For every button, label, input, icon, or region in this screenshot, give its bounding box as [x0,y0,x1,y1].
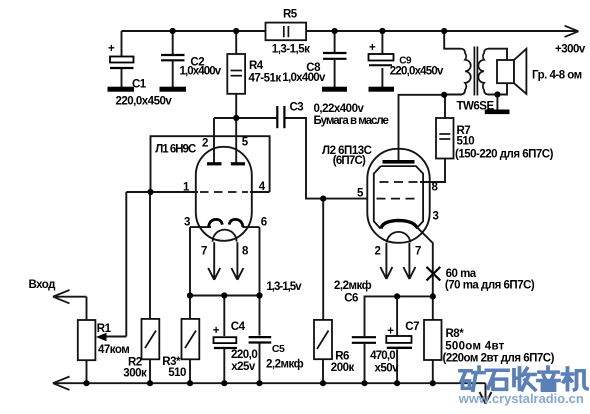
svg-text:2,2мкф: 2,2мкф [266,358,304,370]
wire Л2 grid node to R6 [322,199,324,320]
svg-text:6: 6 [261,216,267,228]
resistor R6 [314,320,332,359]
wire Л1 pin 3 drop [189,227,191,295]
wire input horizontal [55,296,87,298]
resistor R2 [142,319,160,359]
speaker Гр. 4-8 ом [497,49,526,94]
wire secondary bottom to speaker [488,83,507,94]
svg-text:www.crystalradio.cn: www.crystalradio.cn [458,391,584,406]
svg-text:+: + [369,42,376,54]
svg-text:47ком: 47ком [98,344,129,356]
svg-text:(220ом 2вт для 6П7С): (220ом 2вт для 6П7С) [443,353,555,365]
wire R1 wiper riser [125,192,127,337]
resistor R8 [424,320,442,360]
Л2 heater filament [387,232,411,242]
tube Л1 6Н9С envelope [196,147,252,241]
wire R3 bottom lead [189,359,191,383]
svg-text:2,2мкф: 2,2мкф [334,280,372,292]
svg-text:8: 8 [432,182,439,194]
Л1 cathode pin 6 [229,219,243,226]
svg-text:510: 510 [457,136,475,148]
wire ground rail right drop with arrow [480,383,492,403]
svg-text:Гр. 4-8 ом: Гр. 4-8 ом [532,70,582,82]
junction R4 top [233,28,239,34]
junction ground rail R8 [430,380,436,386]
resistor R5 [266,23,307,41]
svg-text:7: 7 [201,245,207,257]
ground C1 [108,87,135,92]
svg-text:2: 2 [375,246,381,258]
svg-text:1: 1 [183,182,190,194]
svg-text:x25v: x25v [231,361,256,373]
wire Л1 cathode pin 3 horizontal [190,226,211,228]
junction ground rail R1 [83,380,89,386]
svg-text:C3: C3 [290,102,304,114]
capacitor C5 [249,337,272,342]
junction transformer primary top [441,28,447,34]
wire C1 bottom lead [121,69,123,87]
wire input arrow [53,290,70,303]
wire R3 top lead [189,296,191,319]
junction secondary ground [494,91,500,97]
svg-text:C5: C5 [272,343,285,355]
wire Л1 heater pin 8 with arrow [231,242,243,279]
wire Л1 cathode rail [190,295,260,297]
svg-text:200к: 200к [331,362,355,374]
transformer TW6SE primary [444,49,471,95]
svg-text:R4: R4 [249,60,264,72]
wire R1 bottom lead [86,360,88,383]
svg-text:C1: C1 [132,79,147,91]
wire transformer primary bottom lead [444,94,462,96]
svg-text:R5: R5 [283,9,298,21]
transformer TW6SE secondary [478,49,488,95]
junction C9 top [379,28,385,34]
svg-text:500ом 4вт: 500ом 4вт [445,340,504,352]
wire R2 riser from grid node [149,192,151,319]
junction node A anode/C3 [233,115,239,121]
wire Л2 heater pin 2 with arrow [380,243,392,279]
svg-text:TW6SE: TW6SE [457,101,495,113]
junction ground rail R6 [320,380,326,386]
svg-text:510: 510 [168,367,186,379]
svg-text:5: 5 [357,188,364,200]
svg-text:47-51к: 47-51к [249,72,282,84]
capacitor C6 [352,337,376,343]
junction C8 top [332,28,338,34]
ground C2 [160,87,187,92]
wire R7 bottom lead to pin 8 [420,159,445,183]
resistor R4 [227,54,245,94]
junction grid Л1 / R2 [147,189,153,195]
wire pin2 anode lead [213,118,215,163]
wire arrow +300v [565,26,579,37]
junction ground rail C5 [256,380,262,386]
watermark 矿石收音机 [460,367,587,390]
svg-text:3: 3 [433,211,439,223]
junction ground rail C7 [394,380,400,386]
wire Л1 cathode pin 6 horizontal [243,226,260,228]
wire R8 bottom lead [432,360,434,383]
svg-text:+: + [108,43,115,55]
svg-text:C7: C7 [405,321,419,333]
wire Л1 pin 6 drop [259,227,261,295]
junction cathode rail C5 [256,292,262,298]
capacitor C2 [161,55,185,60]
svg-text:(70 ma для 6П7С): (70 ma для 6П7С) [445,280,535,292]
wire Л2 heater pin 7 with arrow [403,243,415,279]
Л2 control grid dashes pin 5 [377,198,419,200]
junction cathode rail C4 [221,292,227,298]
wire C6 bottom lead [364,344,366,383]
wire C5 bottom lead [259,343,261,383]
ground speaker [485,110,510,115]
svg-text:220,0x450v: 220,0x450v [390,66,444,78]
wire ground rail left arrow [53,377,70,390]
svg-text:R8*: R8* [446,328,465,340]
wire C7 top lead [396,296,398,336]
wire C4 top lead [223,296,225,337]
wire secondary top to speaker [488,49,507,60]
svg-text:Вход: Вход [29,279,57,291]
wire wiper horizontal [104,336,126,338]
wire R1 top lead [86,297,88,320]
capacitor C1 (electrolytic) [108,43,134,68]
svg-text:(150-220 для 6П7С): (150-220 для 6П7С) [455,149,554,161]
wire Л1 heater pin 7 with arrow [208,242,220,279]
Л1 anode pin 5 [231,162,245,165]
junction cathode rail 2 C7 [394,293,400,299]
tube Л2 6П13С envelope [367,149,429,243]
junction anode Л2 / R7 / primary bottom [441,92,447,98]
Л1 heater filament [213,230,237,242]
svg-text:(6П7С): (6П7С) [333,155,366,167]
capacitor C9 (electrolytic) [369,42,394,65]
svg-text:220,0: 220,0 [231,349,257,361]
junction ground rail C6 [361,380,367,386]
wire C9 bottom lead [381,68,383,87]
wire Л2 cathode rail [365,296,433,336]
Л1 cathode pin 3 [209,219,223,226]
X mark 60 ma [427,267,441,281]
svg-text:2: 2 [202,138,208,150]
wire node A horizontal (anodes to C3) [214,117,277,119]
Л1 grid dashes [200,191,248,193]
svg-text:7: 7 [415,246,421,258]
svg-text:1,0x400v: 1,0x400v [180,65,222,77]
wire C1 top lead [121,31,123,57]
junction ground rail R3 [187,380,193,386]
svg-text:4: 4 [259,181,266,193]
junction ground rail C4 [221,380,227,386]
wire pin5 anode lead [235,118,237,163]
svg-text:470,0: 470,0 [370,350,395,362]
svg-text:Бумага в масле: Бумага в масле [314,115,389,127]
wire C8 bottom lead [334,60,336,87]
svg-text:0,22x400v: 0,22x400v [314,103,365,115]
svg-text:+300v: +300v [555,44,586,56]
Л2 cathode pin 3 [381,220,417,228]
wire C3 right lead to grid node [284,118,368,199]
wire R7 top lead [444,95,446,118]
svg-text:x50v: x50v [375,363,400,375]
svg-text:8: 8 [242,245,249,257]
svg-text:3: 3 [184,216,190,228]
wire C2 bottom lead [172,61,174,87]
wire B+ top rail right section [306,30,576,32]
wire transformer primary top lead [444,31,460,49]
junction cathode rail R3 [187,292,193,298]
svg-text:C6: C6 [344,292,358,304]
svg-text:1,3-1,5к: 1,3-1,5к [272,44,310,56]
wire Л1 grid tie box (pins 1-4) [151,136,270,192]
wire ground rail bottom [55,382,486,384]
wire R2 bottom lead [149,359,151,383]
Л2 screen grid dashes pin 8 [380,181,419,183]
wire anode Л2 to transformer junction [399,95,445,161]
resistor R3 [182,319,200,359]
wire grid line pin 4 side [250,191,270,193]
wire C9 top lead [381,31,383,54]
junction grid Л2 / R6 [320,196,326,202]
resistor R7 [436,118,454,159]
junction ground rail R2 [147,380,153,386]
ground C9 [369,87,395,92]
wire C2 top lead [172,31,174,55]
ground C8 [322,87,347,92]
wire grid line pin 1 side [126,191,198,193]
svg-text:1,3-1,5v: 1,3-1,5v [266,281,302,293]
svg-text:R6: R6 [335,350,349,362]
svg-text:+: + [213,325,220,337]
svg-text:+: + [387,325,394,337]
svg-text:R1: R1 [97,323,112,335]
svg-text:1,0x400v: 1,0x400v [282,72,326,84]
capacitor C3 [277,106,284,128]
Л2 anode [383,160,415,164]
svg-text:Л1 6Н9С: Л1 6Н9С [155,144,196,156]
svg-text:C4: C4 [231,321,246,333]
wire C4 bottom lead [223,349,225,383]
transformer core [474,47,477,96]
svg-text:300к: 300к [123,367,147,379]
wire C5 top lead [259,296,261,336]
junction C2 top [170,28,176,34]
wire R8 top lead [432,296,434,320]
svg-text:60 ma: 60 ma [446,268,477,280]
svg-text:220,0x450v: 220,0x450v [116,96,173,108]
svg-text:5: 5 [242,137,249,149]
wire C8 top lead [334,31,336,53]
potentiometer R1 [78,320,107,360]
wire B+ top rail left section [122,30,266,32]
capacitor C4 (electrolytic) [213,325,237,348]
capacitor C7 (electrolytic) [386,325,412,348]
wire speaker ground drop [496,95,498,110]
wire R6 bottom lead [322,359,324,383]
Л2 beam plates [374,166,423,229]
wire R4 top lead [235,31,237,54]
wire Л2 pin 3 cathode drop [418,228,433,297]
wire R4 bottom lead to node A [235,94,237,118]
Л1 anode pin 2 [207,162,222,165]
wire C7 bottom lead [396,349,398,383]
junction cathode rail 2 R8 [430,293,436,299]
capacitor C8 [323,53,347,59]
